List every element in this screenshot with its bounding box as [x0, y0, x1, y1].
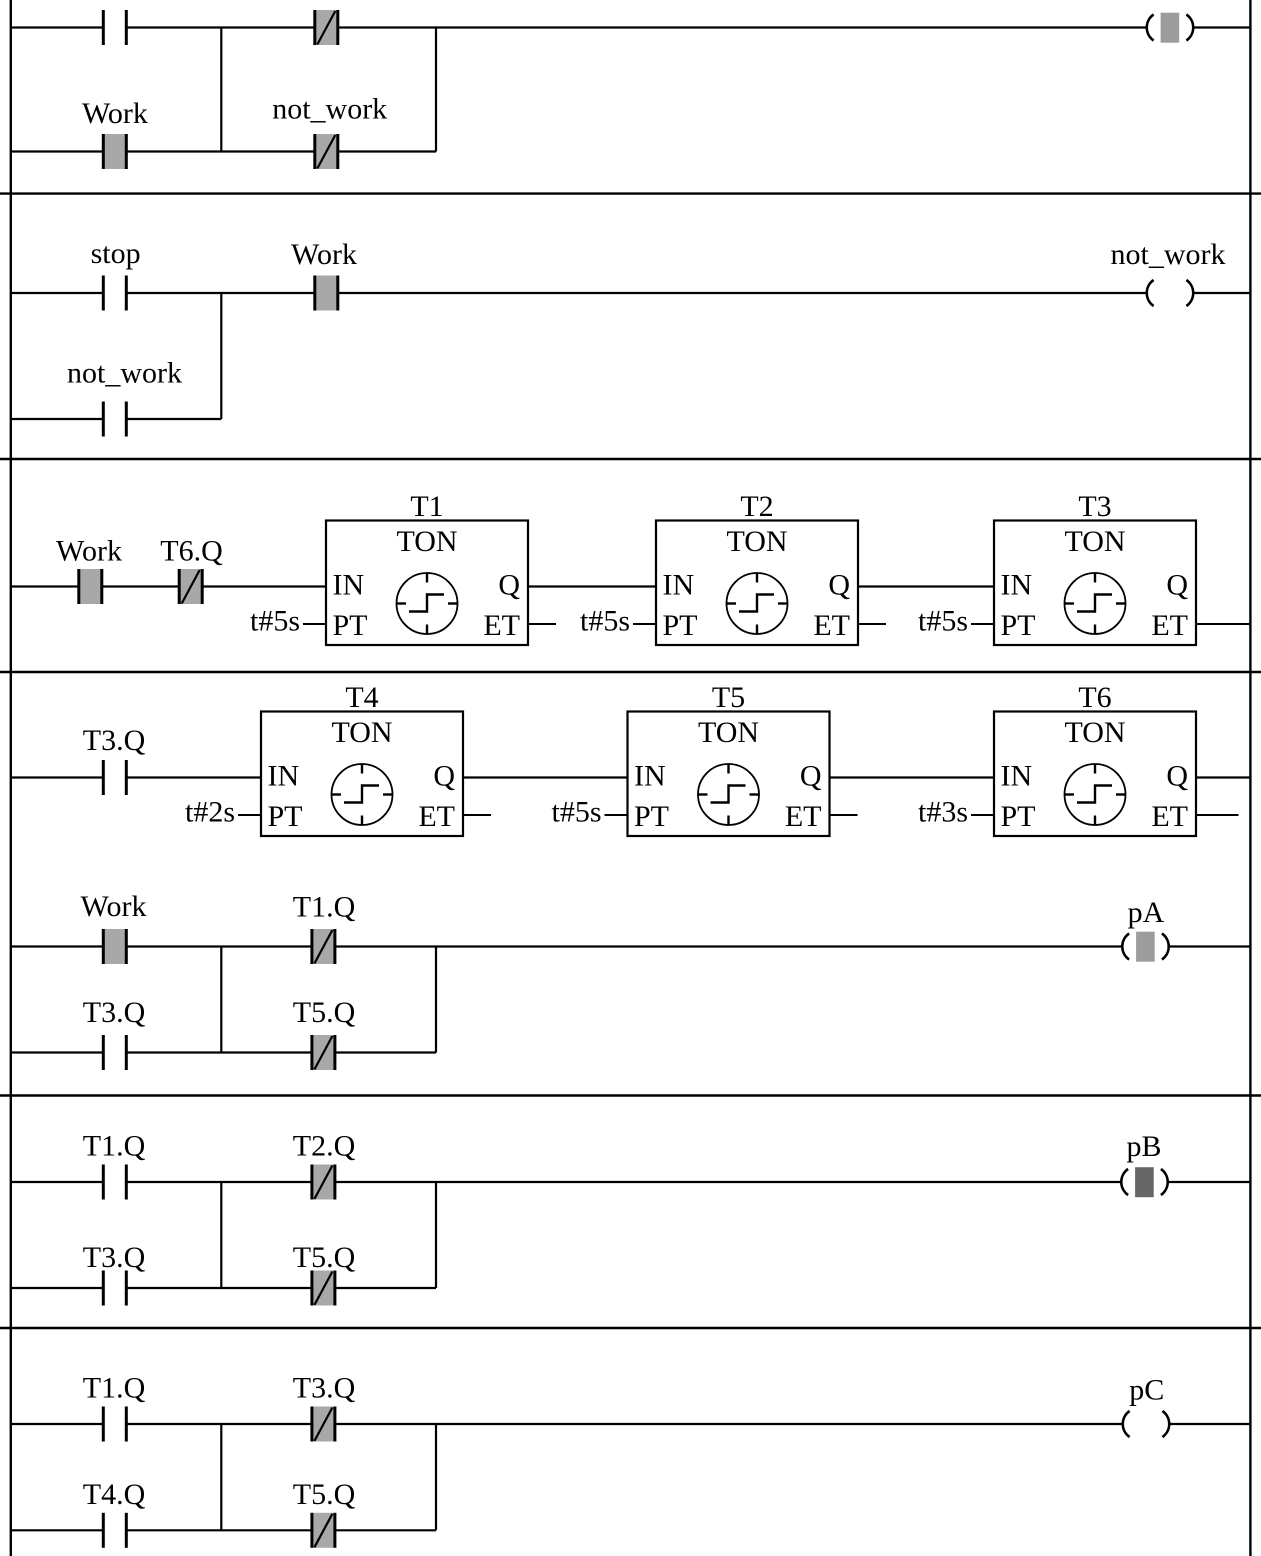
junction: pB branch left: [220, 1182, 222, 1288]
svg-text:Work: Work: [82, 97, 148, 130]
rung 1 branch wire: not_work contact to junction: [338, 150, 436, 152]
pC rung T3.Q contact (NC, active): [312, 1407, 335, 1442]
svg-text:T1.Q: T1.Q: [83, 1130, 146, 1163]
svg-text:T1.Q: T1.Q: [293, 891, 356, 924]
network separator 2: [0, 458, 1261, 460]
rung 1 not_work contact bottom (NC, active): [315, 134, 338, 169]
rung 2 branch wire: not_work contact to junction: [126, 418, 221, 420]
timer T3 TON block: [994, 490, 1196, 645]
T3 clock icon: [1065, 573, 1126, 634]
rung 4 T3.Q contact (NO): [103, 760, 126, 795]
timer T2 TON block: [656, 490, 858, 645]
svg-text:PT: PT: [1001, 609, 1036, 642]
svg-text:stop: stop: [91, 237, 141, 270]
T5 clock icon: [698, 764, 759, 825]
svg-text:Q: Q: [1166, 569, 1188, 602]
T6 clock icon: [1065, 764, 1126, 825]
pA branch wire: rail to T3.Q contact: [10, 1051, 103, 1053]
svg-text:ET: ET: [1151, 800, 1188, 833]
svg-text:TON: TON: [726, 525, 787, 558]
svg-text:t#5s: t#5s: [551, 796, 601, 829]
svg-text:not_work: not_work: [272, 93, 387, 126]
rung 1 Work contact (NO, active): [103, 134, 126, 169]
pA rung Work contact (NO, active): [103, 929, 126, 964]
svg-text:T4: T4: [345, 681, 378, 714]
svg-text:T3.Q: T3.Q: [83, 996, 146, 1029]
svg-text:t#5s: t#5s: [580, 605, 630, 638]
T5 ET stub: [830, 814, 858, 816]
svg-text:IN: IN: [663, 569, 695, 602]
T2 ET stub: [858, 623, 886, 625]
svg-text:T5.Q: T5.Q: [293, 996, 356, 1029]
pB branch wire: T5.Q contact to junction: [335, 1287, 436, 1289]
svg-text:ET: ET: [418, 800, 455, 833]
svg-text:T5.Q: T5.Q: [293, 1241, 356, 1274]
wire: T2 Q to T3 IN: [858, 585, 994, 587]
pC rung T1.Q contact (NO): [103, 1407, 126, 1442]
pB branch wire: rail to T3.Q contact: [10, 1287, 103, 1289]
junction: pC branch right: [435, 1424, 437, 1530]
svg-text:T5.Q: T5.Q: [293, 1478, 356, 1511]
svg-text:not_work: not_work: [1111, 238, 1226, 271]
svg-text:ET: ET: [813, 609, 850, 642]
svg-text:TON: TON: [698, 716, 759, 749]
pA rung T1.Q contact (NC, active): [312, 929, 335, 964]
rung 4 wire: T3.Q contact to T4 IN: [126, 776, 261, 778]
timer T1 TON block: [326, 490, 528, 645]
junction: rung 2 parallel branch: [220, 293, 222, 419]
rung 3 wire: Work to T6.Q contact: [102, 585, 179, 587]
svg-text:PT: PT: [634, 800, 669, 833]
pA branch wire: T3.Q to T5.Q contact: [126, 1051, 312, 1053]
svg-text:IN: IN: [1001, 569, 1033, 602]
svg-text:T3: T3: [1078, 490, 1111, 523]
timer T6 TON block: [994, 681, 1196, 836]
junction: rung 1 parallel branch left: [220, 28, 222, 152]
svg-text:TON: TON: [331, 716, 392, 749]
svg-text:Q: Q: [828, 569, 850, 602]
svg-text:t#5s: t#5s: [918, 605, 968, 638]
pC branch T5.Q contact (NC, active): [312, 1513, 335, 1548]
pA branch T5.Q contact (NC, active): [312, 1035, 335, 1070]
rung 2 wire: coil to right rail: [1194, 292, 1251, 294]
T1 ET stub: [528, 623, 556, 625]
pC branch wire: rail to T4.Q contact: [10, 1529, 103, 1531]
T4 ET stub: [463, 814, 491, 816]
rung 1 wire: contact 1 to not_work contact (top): [126, 26, 314, 28]
rung 1 output coil (active): [1147, 13, 1193, 43]
pA rung wire: coil to right rail: [1169, 945, 1250, 947]
svg-text:T6: T6: [1078, 681, 1111, 714]
rung 1 branch wire: Work to not_work contact: [126, 150, 314, 152]
junction: rung 1 parallel branch right: [435, 28, 437, 152]
wire: T4 Q to T5 IN: [463, 776, 628, 778]
T2 PT preset value t#5s: [580, 605, 656, 638]
wire: T1 Q to T2 IN: [528, 585, 656, 587]
pC rung wire: rail to T1.Q contact: [10, 1423, 103, 1425]
pB branch T3.Q contact (NO): [103, 1271, 126, 1306]
rung 2 not_work contact (NO): [103, 402, 126, 437]
svg-text:pC: pC: [1129, 1374, 1164, 1407]
pB rung wire: coil to right rail: [1168, 1181, 1250, 1183]
svg-text:t#2s: t#2s: [185, 796, 235, 829]
T2 clock icon: [727, 573, 788, 634]
pC branch wire: T5.Q contact to junction: [335, 1529, 436, 1531]
timer T5 TON block: [628, 681, 830, 836]
pB branch wire: T3.Q to T5.Q contact: [126, 1287, 312, 1289]
rung 3 wire: rail to Work contact: [10, 585, 79, 587]
svg-text:PT: PT: [1001, 800, 1036, 833]
svg-text:T5: T5: [712, 681, 745, 714]
pB branch T5.Q contact (NC, active): [312, 1271, 335, 1306]
rung 2 branch wire: rail to not_work contact: [10, 418, 103, 420]
pC rung wire: T3.Q contact to coil: [335, 1423, 1123, 1425]
svg-text:ET: ET: [785, 800, 822, 833]
rung 4 wire: rail to T3.Q contact: [10, 776, 103, 778]
svg-text:IN: IN: [268, 760, 300, 793]
rung 1 wire: not_work contact to coil: [338, 26, 1147, 28]
pC branch T4.Q contact (NO): [103, 1513, 126, 1548]
pA rung wire: T1.Q contact to coil: [335, 945, 1122, 947]
pC branch wire: T4.Q to T5.Q contact: [126, 1529, 312, 1531]
rung 1 wire: coil to right rail: [1194, 26, 1251, 28]
svg-text:Q: Q: [433, 760, 455, 793]
network separator 1: [0, 192, 1261, 194]
svg-text:t#5s: t#5s: [250, 605, 300, 638]
svg-text:T4.Q: T4.Q: [83, 1478, 146, 1511]
pB rung T2.Q contact (NC, active): [312, 1165, 335, 1200]
svg-text:T2.Q: T2.Q: [293, 1130, 356, 1163]
rung 3 T6.Q contact (NC, active): [179, 569, 202, 604]
T5 PT preset value t#5s: [551, 796, 627, 829]
junction: pC branch left: [220, 1424, 222, 1530]
rung 1 wire: rail to contact 1: [10, 26, 103, 28]
svg-text:IN: IN: [634, 760, 666, 793]
pC rung wire: T1.Q to T3.Q contact: [126, 1423, 312, 1425]
svg-text:Q: Q: [800, 760, 822, 793]
T6 PT preset value t#3s: [918, 796, 994, 829]
svg-text:TON: TON: [1064, 525, 1125, 558]
pB output coil (dark, active): [1121, 1167, 1167, 1197]
svg-text:T2: T2: [740, 490, 773, 523]
T1 PT preset value t#5s: [250, 605, 326, 638]
pC output coil: [1123, 1411, 1169, 1437]
right power rail: [1249, 0, 1251, 1556]
rung 2 Work contact (NO, active): [315, 276, 338, 311]
T4 clock icon: [332, 764, 393, 825]
junction: pB branch right: [435, 1182, 437, 1288]
rung 2 wire: stop to Work contact: [126, 292, 314, 294]
rung 1 branch wire: rail to Work contact: [10, 150, 103, 152]
rung 1 not_work contact top (NC, active): [315, 10, 338, 45]
svg-text:T1.Q: T1.Q: [83, 1372, 146, 1405]
junction: pA branch right: [435, 947, 437, 1053]
wire: T6 Q to right rail: [1196, 776, 1250, 778]
pA branch wire: T5.Q contact to junction: [335, 1051, 436, 1053]
svg-text:Q: Q: [498, 569, 520, 602]
pA branch T3.Q contact (NO): [103, 1035, 126, 1070]
svg-text:Work: Work: [291, 238, 357, 271]
wire: T3 ET to right rail: [1196, 623, 1250, 625]
rung 3 wire: T6.Q contact to T1 IN: [202, 585, 326, 587]
svg-text:IN: IN: [333, 569, 365, 602]
svg-text:PT: PT: [268, 800, 303, 833]
T4 PT preset value t#2s: [185, 796, 261, 829]
timer T4 TON block: [261, 681, 463, 836]
svg-text:not_work: not_work: [67, 357, 182, 390]
svg-text:T1: T1: [410, 490, 443, 523]
pB rung T1.Q contact (NO): [103, 1165, 126, 1200]
svg-text:Q: Q: [1166, 760, 1188, 793]
T6 ET stub: [1196, 814, 1239, 816]
left power rail: [10, 0, 12, 1556]
pB rung wire: T2.Q contact to coil: [335, 1181, 1121, 1183]
svg-text:ET: ET: [483, 609, 520, 642]
svg-text:T3.Q: T3.Q: [83, 1241, 146, 1274]
T3 PT preset value t#5s: [918, 605, 994, 638]
svg-text:T3.Q: T3.Q: [83, 724, 146, 757]
pA rung wire: Work to T1.Q contact: [126, 945, 312, 947]
network separator 3: [0, 671, 1261, 673]
svg-text:TON: TON: [396, 525, 457, 558]
svg-text:Work: Work: [56, 535, 122, 568]
T1 clock icon: [397, 573, 458, 634]
pB rung wire: rail to T1.Q contact: [10, 1181, 103, 1183]
svg-text:PT: PT: [333, 609, 368, 642]
pC rung wire: coil to right rail: [1170, 1423, 1251, 1425]
network separator 4: [0, 1094, 1261, 1096]
svg-text:ET: ET: [1151, 609, 1188, 642]
rung 2 wire: rail to stop contact: [10, 292, 103, 294]
junction: pA branch left: [220, 947, 222, 1053]
wire: T5 Q to T6 IN: [830, 776, 995, 778]
pA rung wire: rail to Work contact: [10, 945, 103, 947]
network separator 5: [0, 1327, 1261, 1329]
rung 3 Work contact (NO, active): [79, 569, 102, 604]
svg-text:TON: TON: [1064, 716, 1125, 749]
stop contact (NO): [103, 276, 126, 311]
not_work output coil: [1147, 280, 1193, 306]
svg-text:IN: IN: [1001, 760, 1033, 793]
svg-text:t#3s: t#3s: [918, 796, 968, 829]
svg-text:pA: pA: [1128, 896, 1165, 929]
svg-text:Work: Work: [81, 890, 147, 923]
svg-text:T6.Q: T6.Q: [160, 535, 223, 568]
rung 2 wire: Work contact to coil: [338, 292, 1147, 294]
svg-text:pB: pB: [1126, 1130, 1161, 1163]
svg-text:PT: PT: [663, 609, 698, 642]
rung 1 contact (top branch, NO): [103, 10, 126, 45]
pB rung wire: T1.Q to T2.Q contact: [126, 1181, 312, 1183]
svg-text:T3.Q: T3.Q: [293, 1372, 356, 1405]
pA output coil (active): [1122, 932, 1168, 962]
